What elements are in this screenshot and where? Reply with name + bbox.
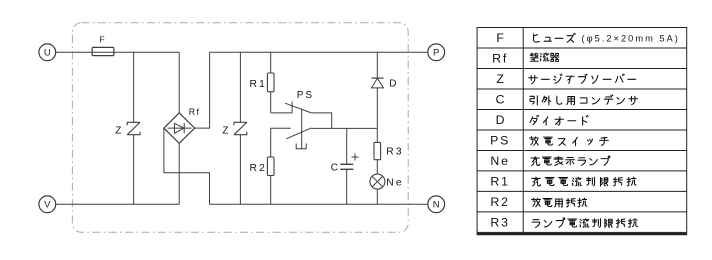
resistor R1 — [267, 73, 274, 92]
svg-text:F: F — [496, 31, 504, 45]
label F — [99, 34, 105, 44]
resistor R3 — [374, 142, 381, 159]
label Rf — [189, 107, 201, 117]
lamp Ne — [370, 174, 385, 189]
switch PS gang link — [301, 109, 303, 149]
svg-text:Z: Z — [222, 126, 228, 137]
label + polarity — [352, 154, 359, 161]
resistor R1 branch wires — [270, 52, 272, 113]
svg-text:U: U — [44, 48, 51, 59]
label C — [331, 162, 338, 173]
svg-text:Z: Z — [115, 125, 121, 136]
wire: bridge DC minus to N rail (step) — [164, 128, 210, 204]
capacitor C — [340, 164, 353, 169]
svg-text:C: C — [496, 93, 505, 107]
svg-text:F: F — [99, 34, 105, 44]
capacitor C branch wires — [346, 128, 348, 204]
wire: R3 to Ne — [376, 160, 378, 174]
parts table symbol column — [490, 31, 510, 229]
wire: N side bottom rail — [210, 203, 428, 205]
wire: Ne to bottom rail — [376, 189, 378, 204]
parts table frame — [477, 28, 688, 235]
label D — [389, 79, 396, 90]
label Z (Z1) — [115, 125, 121, 136]
wire: PS lower fixed contact — [271, 127, 291, 129]
svg-text:Rf: Rf — [492, 52, 508, 66]
wire: V phase bottom rail — [56, 203, 180, 205]
label R3 — [386, 147, 404, 158]
svg-text:PS: PS — [490, 134, 510, 148]
surge absorber Z2 branch wires — [239, 52, 241, 204]
wire: PS upper fixed contact — [271, 102, 292, 113]
wire: bridge DC plus to P rail — [195, 52, 210, 128]
svg-text:R3: R3 — [490, 216, 509, 230]
svg-text:R2: R2 — [490, 195, 509, 209]
terminal P — [428, 44, 445, 61]
surge absorber Z1 branch wires — [133, 52, 135, 204]
svg-text:D: D — [496, 113, 505, 127]
svg-text:D: D — [389, 79, 396, 90]
parts table descriptions (Japanese, drawn as strokes) — [529, 33, 680, 227]
svg-text:Ne: Ne — [490, 154, 509, 168]
switch PS manual actuator — [296, 144, 306, 149]
svg-text:R1: R1 — [250, 79, 268, 90]
resistor R2 branch wires — [270, 128, 272, 204]
fuse F — [92, 47, 114, 55]
wire: D to R3 — [376, 88, 378, 142]
wire: PS upper pole output — [311, 113, 331, 128]
svg-text:C: C — [331, 162, 338, 173]
surge absorber Z2 — [234, 122, 247, 134]
label Ne — [386, 177, 404, 188]
svg-text:R1: R1 — [490, 175, 509, 189]
wire: P side top rail — [210, 51, 428, 53]
svg-text:R2: R2 — [250, 163, 268, 174]
enclosure dash-dot boundary — [72, 23, 408, 233]
rectifier Rf (bridge) — [164, 113, 195, 143]
label Z (Z2) — [222, 126, 228, 137]
wire: switch output node to R3 branch — [311, 127, 377, 129]
wire: U phase top rail — [56, 51, 180, 53]
svg-text:Rf: Rf — [189, 107, 201, 117]
svg-text:Ne: Ne — [386, 177, 404, 188]
svg-text:V: V — [44, 200, 51, 211]
switch PS lower blade — [286, 128, 311, 139]
terminal V — [39, 196, 56, 213]
svg-text:P: P — [433, 48, 439, 59]
resistor R2 — [267, 157, 274, 176]
label PS — [297, 90, 314, 101]
surge absorber Z1 — [127, 122, 140, 134]
svg-text:N: N — [433, 200, 440, 211]
svg-text:PS: PS — [297, 90, 314, 101]
wire: bridge top AC feed — [178, 52, 180, 113]
svg-text:R3: R3 — [386, 147, 404, 158]
label R2 — [250, 163, 268, 174]
diode D branch wire — [376, 52, 378, 78]
terminal N — [428, 196, 445, 213]
svg-text:(φ5.2×20mm 5A): (φ5.2×20mm 5A) — [582, 34, 680, 44]
terminal U — [39, 44, 56, 61]
switch PS upper blade — [285, 103, 311, 113]
diode D — [372, 78, 384, 88]
wire: bridge bottom AC feed — [178, 143, 180, 204]
label R1 — [250, 79, 268, 90]
svg-text:Z: Z — [496, 72, 504, 86]
